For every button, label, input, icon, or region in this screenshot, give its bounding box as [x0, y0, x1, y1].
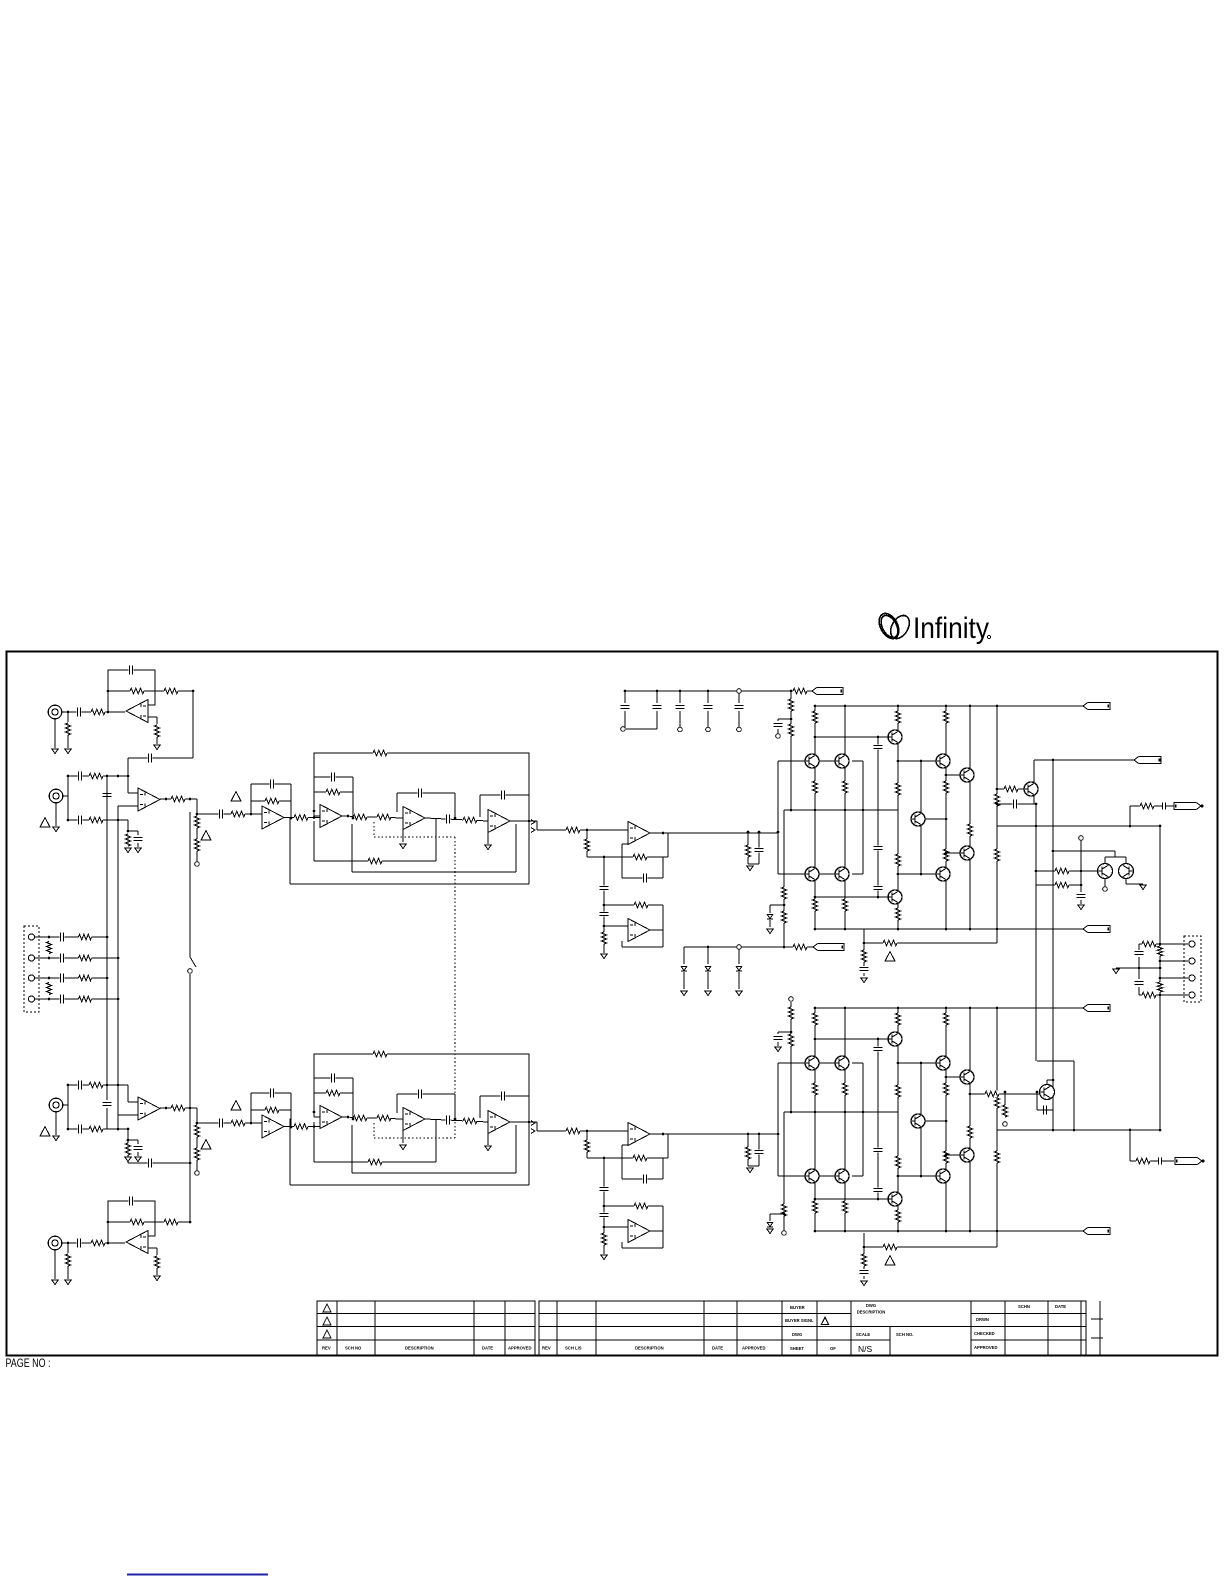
svg-text:PAGE NO :: PAGE NO :: [6, 1358, 51, 1370]
svg-text:Infinity: Infinity: [913, 612, 989, 645]
svg-text:DATE: DATE: [482, 1346, 493, 1351]
svg-text:DWG: DWG: [866, 1303, 876, 1308]
svg-text:CHECKED: CHECKED: [974, 1331, 995, 1336]
svg-text:APPROVED: APPROVED: [742, 1346, 766, 1351]
svg-text:REV: REV: [542, 1346, 551, 1351]
svg-text:BUYER SIGNL: BUYER SIGNL: [785, 1318, 814, 1323]
svg-text:SCH NO.: SCH NO.: [896, 1332, 913, 1337]
svg-text:APPROVED: APPROVED: [508, 1346, 532, 1351]
svg-text:DESCRIPTION: DESCRIPTION: [405, 1346, 434, 1351]
svg-text:BUYER: BUYER: [790, 1305, 805, 1310]
svg-text:APPROVED: APPROVED: [974, 1345, 998, 1350]
svg-text:N/S: N/S: [858, 1344, 873, 1354]
svg-text:DWG: DWG: [792, 1332, 802, 1337]
svg-text:REV: REV: [322, 1346, 331, 1351]
svg-text:SCALE: SCALE: [856, 1332, 870, 1337]
svg-text:SCH LIS: SCH LIS: [565, 1346, 582, 1351]
svg-text:SCHN: SCHN: [1018, 1304, 1030, 1309]
svg-text:OF: OF: [830, 1346, 836, 1351]
svg-text:DATE: DATE: [1055, 1304, 1066, 1309]
svg-text:DESCRIPTION: DESCRIPTION: [857, 1310, 886, 1315]
svg-text:DESCRIPTION: DESCRIPTION: [635, 1346, 664, 1351]
svg-text:SCH NO: SCH NO: [345, 1346, 362, 1351]
svg-text:DRWN: DRWN: [976, 1317, 989, 1322]
svg-text:DATE: DATE: [712, 1346, 723, 1351]
svg-text:SHEET: SHEET: [790, 1346, 804, 1351]
